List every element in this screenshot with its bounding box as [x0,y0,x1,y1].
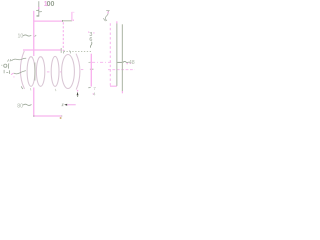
lens L3 [51,56,59,86]
wire: top plate pink [33,20,62,22]
marks above lens L4 [64,51,71,54]
leader curl from label 36 [90,42,91,48]
axis dashed right [108,69,135,71]
svg-text:10: 10 [18,34,24,40]
tick below lens L3 [54,89,57,91]
axis fold dash-dot [92,61,111,63]
svg-text:80: 80 [17,104,23,110]
annotation glyph 0 [4,64,7,67]
lens L1 [27,57,35,87]
axis arrow left shaft [67,104,75,106]
beam dashed vertical [109,23,111,86]
lens L4 [62,55,75,89]
gray connector at fold axis [117,61,123,63]
leader squiggle top right [105,11,109,21]
plate B pink tip [116,21,118,23]
wire: bottom plate [33,115,62,117]
node: pink dot right of riser [73,20,74,21]
leader squiggle to label 48 [123,61,129,62]
svg-text:48: 48 [129,60,135,66]
tick below lens L1 [29,88,32,90]
aperture bar tick [89,61,91,63]
optical axis dash a [47,71,50,73]
plate B [116,23,118,86]
leader from label 100 [38,1,40,15]
axis arrow left head [64,104,67,106]
annotation leader wavy 1 [11,58,26,61]
node: pink dots at label 48 [127,63,128,64]
annotation glyph dash [6,72,8,74]
axis arrow up pink tip [77,90,78,92]
annotation pink dot [13,76,14,77]
plate C pink tip [121,91,123,93]
wire: left housing wall upper [33,11,35,56]
node: orange dot bottom [60,117,62,119]
wire: riser hook [72,11,75,13]
aperture bar foot [88,86,90,89]
annotation glyph paren [7,63,10,68]
plate C [121,24,123,91]
annotation leader wavy 2 [14,71,26,74]
optical axis dash c [81,69,83,71]
svg-text:7: 7 [93,86,96,91]
annotation pink tick [11,73,13,74]
node: pink serif dot under label 100 [46,5,47,6]
lens L2 [36,57,44,87]
aperture bar [90,54,92,87]
leader tick past wall [35,35,37,37]
wire: riser [71,12,73,21]
leader wavy from label 80 [23,104,32,105]
svg-text:00: 00 [47,1,55,8]
wire: left housing wall lower [33,88,35,117]
annotation dot [1,65,2,66]
node: pink dot at label 4 [93,93,94,94]
tick at housing top right end [60,48,62,53]
annotation glyph paren2 [8,70,10,74]
leader wavy from label 10 [23,35,31,36]
tick toward plate B [103,18,105,21]
wire: top plate gray segment [62,20,72,22]
optical axis dash d gray [90,68,94,70]
node: bottom plate end dot [61,115,62,116]
wire: dashed partition [62,22,64,51]
beam corner [110,85,117,87]
lens L1 right edge gray [34,63,36,81]
wire: housing top line [23,49,61,51]
annotation ticks left [8,59,11,61]
axis arrow up stem [77,95,78,97]
wire: dashed gray mid line [64,50,91,52]
node: pink dots beside label 36 [88,32,89,33]
axis arrow up head [77,92,79,95]
node: pink mark on top right squiggle [107,12,108,14]
tick below lens L0 [21,86,23,89]
optical axis dash b [60,71,61,73]
annotation glyph 1 [3,70,5,73]
node: bottom left corner dot [33,116,34,117]
node: top plate corner dot [62,20,63,22]
lens L0 arc [20,51,24,89]
lens L5 meniscus [76,54,80,90]
axis label z [62,104,64,106]
